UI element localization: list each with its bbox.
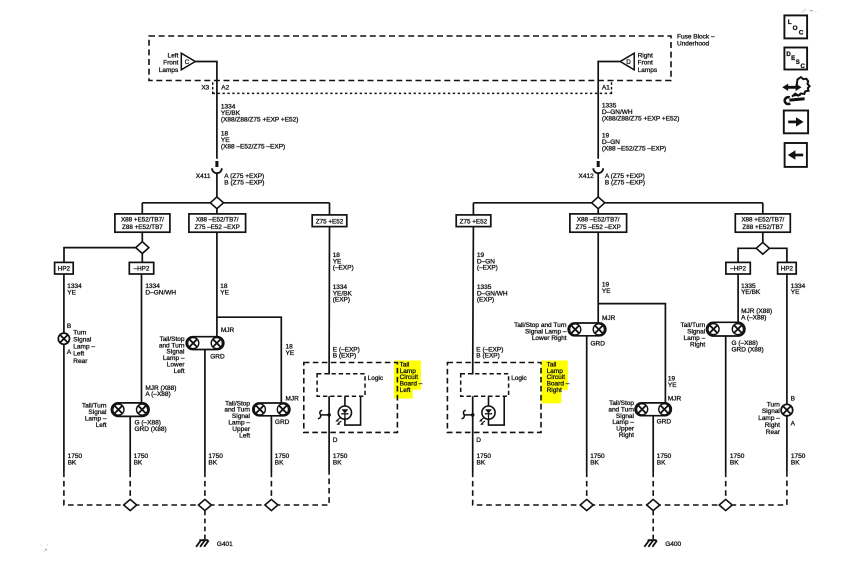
- splice diamond below X412: [592, 197, 605, 209]
- X412 pins A/B: [605, 173, 645, 186]
- pin A1: [602, 85, 610, 92]
- svg-text:D: D: [626, 59, 631, 66]
- svg-text:HP2: HP2: [781, 265, 794, 272]
- svg-text:BK: BK: [275, 460, 284, 467]
- svg-text:Signal: Signal: [73, 337, 92, 344]
- svg-text:B (Z75 –EXP): B (Z75 –EXP): [224, 179, 264, 186]
- svg-text:(EXP): (EXP): [477, 297, 494, 304]
- connector X412: [593, 161, 603, 173]
- tail/turn signal lamp left label: [82, 403, 107, 429]
- svg-text:GRD: GRD: [210, 354, 225, 361]
- wire: right distribution bus: [473, 203, 762, 215]
- wire label 19 YE (col F): [602, 281, 611, 294]
- wire label 19 YE (branch right): [668, 376, 677, 389]
- svg-text:Z75 +E52: Z75 +E52: [460, 218, 488, 225]
- svg-text:(–EXP): (–EXP): [333, 265, 354, 272]
- pin GRD (upper right): [657, 418, 672, 425]
- label X3: [201, 85, 209, 92]
- net box -HP2 (right): [726, 262, 750, 274]
- LED light arrows (left): [337, 418, 341, 421]
- svg-text:A2: A2: [221, 85, 229, 92]
- pins G(-X88)/GRD(X88) right: [732, 340, 764, 353]
- svg-text:MJR: MJR: [221, 327, 235, 334]
- pins E(-EXP)/B(EXP) right board: [476, 346, 503, 359]
- svg-text:Left: Left: [96, 422, 107, 429]
- wire: left distribution bus: [142, 203, 329, 215]
- net box HP2 (right): [778, 262, 797, 274]
- svg-text:Left: Left: [167, 53, 178, 60]
- left front lamps connector C: [181, 53, 195, 70]
- svg-text:(EXP): (EXP): [333, 297, 350, 304]
- svg-text:X411: X411: [196, 173, 211, 180]
- pin D (right board): [476, 437, 481, 444]
- wire label 1750 BK (col G): [730, 453, 745, 466]
- connector X411: [212, 161, 222, 173]
- wire label 1750 BK (col E): [477, 453, 492, 466]
- tail/stop lower right label: [514, 322, 567, 342]
- wire box to tail/stop lamp lower left: [216, 232, 218, 337]
- svg-text:(X88/Z88/Z75 +EXP +E52): (X88/Z88/Z75 +EXP +E52): [602, 116, 680, 123]
- wire label 18 YE (col C): [220, 283, 229, 296]
- LED light arrows (right): [480, 418, 484, 421]
- label X411: [196, 173, 211, 180]
- wire label 1750 BK (col D): [333, 453, 348, 466]
- wire D to ground bus (left board): [328, 436, 330, 472]
- svg-text:A (–X88): A (–X88): [145, 391, 170, 398]
- turn signal lamp - right rear: [781, 404, 793, 416]
- svg-text:BK: BK: [590, 460, 599, 467]
- wire lamp left rear to ground bus: [63, 344, 65, 471]
- LED return wire (right): [489, 396, 505, 425]
- svg-text:YE: YE: [668, 382, 677, 389]
- net box X88 -E52/TB7 Z75 -E52 -EXP (left): [189, 214, 246, 232]
- wire -HP2 to tail/turn signal lamp left: [141, 274, 143, 403]
- svg-text:Left: Left: [174, 368, 185, 375]
- pins MJR(X88)/A(-X88) right: [741, 308, 772, 321]
- svg-text:Front: Front: [163, 60, 178, 67]
- svg-text:X412: X412: [579, 173, 595, 180]
- right front lamps connector D: [620, 53, 634, 70]
- wire label 1750 BK (col F): [590, 453, 605, 466]
- svg-text:L: L: [788, 19, 792, 26]
- wire: box to HP2 splice (right): [738, 232, 787, 262]
- wire -HP2 to tail/turn signal lamp right: [737, 274, 739, 322]
- svg-text:–HP2: –HP2: [730, 265, 746, 272]
- svg-text:GRD (X88): GRD (X88): [135, 426, 167, 433]
- wire label 1334 YE (col H): [791, 283, 806, 296]
- tail/stop and turn signal lamp - upper left: [253, 403, 290, 416]
- left ground bus dashed: [64, 472, 329, 506]
- net box Z75 +E52 (right): [456, 215, 491, 227]
- wire: left front lamps C to X411: [195, 62, 217, 159]
- pin D (left board): [333, 437, 338, 444]
- fuse block label: [677, 34, 715, 48]
- wire box to tail/stop lamp lower right: [597, 232, 599, 323]
- fuse block - underhood dashed box: [149, 36, 671, 81]
- svg-text:YE: YE: [791, 289, 800, 296]
- svg-text:Z88 +E52/TB7: Z88 +E52/TB7: [742, 224, 783, 231]
- tail/stop upper left label: [224, 400, 250, 439]
- tail/stop and turn signal lamp - lower left: [186, 337, 224, 350]
- svg-text:BK: BK: [68, 460, 77, 467]
- svg-text:E: E: [791, 55, 795, 62]
- net box X88 +E52/TB7 Z88 +E52/TB7 (right): [735, 214, 790, 232]
- svg-text:Lamp –: Lamp –: [73, 344, 95, 351]
- tail lamp circuit board left callout: [400, 361, 423, 394]
- svg-text:X88 –E52/TB7/: X88 –E52/TB7/: [196, 217, 239, 224]
- pin A2: [221, 85, 229, 92]
- wire HP2 to turn signal lamp right rear: [786, 274, 788, 404]
- ground symbol G400: [644, 540, 681, 548]
- svg-text:Z88 +E52/TB7: Z88 +E52/TB7: [122, 224, 163, 231]
- svg-text:Lower Right: Lower Right: [532, 335, 567, 342]
- left front lamps label: [159, 53, 179, 74]
- svg-text:D: D: [476, 437, 481, 444]
- wire label 1334 D-GN/WH (col B): [145, 283, 176, 296]
- svg-text:BK: BK: [208, 460, 217, 467]
- wire lower right lamp to ground bus: [586, 336, 588, 472]
- wire labels 1334 YE/BK (EXP): [333, 284, 353, 304]
- pin A (left rear): [67, 349, 72, 356]
- pin B (left rear): [67, 323, 71, 330]
- LED (left): [335, 396, 351, 425]
- svg-text:Underhood: Underhood: [677, 41, 710, 48]
- svg-text:Fuse Block –: Fuse Block –: [677, 34, 715, 41]
- wire label 1335 YE/BK (col G): [741, 283, 761, 296]
- svg-text:Z75 +E52: Z75 +E52: [316, 218, 344, 225]
- pin MJR (lower right): [602, 315, 616, 322]
- wire D to ground bus (right board): [472, 436, 474, 472]
- branch wire to upper left lamp: [217, 317, 281, 403]
- connector X3 boundary ticks and dotted line: [213, 82, 612, 95]
- svg-text:Left: Left: [239, 432, 250, 439]
- LED (right): [479, 396, 495, 425]
- pin A (right rear): [791, 421, 796, 428]
- svg-text:BK: BK: [730, 460, 739, 467]
- svg-text:S: S: [796, 59, 800, 66]
- yellow highlight right: [541, 361, 568, 404]
- svg-text:X88 –E52/TB7/: X88 –E52/TB7/: [577, 217, 620, 224]
- pins G(-X88)/GRD(X88): [135, 420, 167, 433]
- svg-text:MJR: MJR: [602, 315, 616, 322]
- wire upper right lamp to ground bus: [652, 416, 654, 472]
- svg-text:BK: BK: [791, 460, 800, 467]
- label X412: [579, 173, 595, 180]
- tail/stop upper right label: [608, 400, 634, 439]
- svg-text:HP2: HP2: [58, 265, 71, 272]
- branch wire to upper right lamp: [598, 304, 665, 403]
- tail/turn signal lamp right label: [681, 322, 706, 348]
- wire label 1750 BK (col H): [791, 453, 806, 466]
- svg-text:D–GN/WH: D–GN/WH: [145, 289, 176, 296]
- ground lead G400: [652, 511, 654, 540]
- faint scan artifact top right: [801, 9, 816, 13]
- svg-text:G401: G401: [217, 541, 233, 548]
- svg-text:Front: Front: [638, 60, 653, 67]
- svg-text:Right: Right: [619, 432, 634, 439]
- ground lead G401: [204, 511, 206, 540]
- turn signal lamp left rear label: [73, 329, 95, 364]
- svg-text:A (–X88): A (–X88): [741, 315, 766, 322]
- svg-text:YE: YE: [67, 289, 76, 296]
- ground symbol G401: [196, 540, 233, 548]
- svg-text:GRD: GRD: [275, 419, 290, 426]
- wire tail/turn right to ground bus: [725, 336, 727, 472]
- svg-text:(X88 –E52/Z75 –EXP): (X88 –E52/Z75 –EXP): [602, 145, 666, 152]
- pin B (right rear): [791, 395, 795, 402]
- pin MJR (upper right): [668, 396, 682, 403]
- wire: box to HP2 splice (left): [64, 232, 142, 262]
- svg-text:YE/BK: YE/BK: [741, 289, 761, 296]
- wire labels 19 D-GN (-EXP): [477, 252, 498, 272]
- yellow highlight left: [394, 361, 421, 399]
- pin GRD (lower left): [210, 354, 225, 361]
- icon DESC button: [784, 48, 807, 71]
- svg-text:X3: X3: [201, 85, 209, 92]
- tail/stop lower left label: [159, 336, 185, 375]
- svg-text:A: A: [67, 349, 72, 356]
- svg-text:C: C: [185, 59, 190, 66]
- pin GRD (lower right): [591, 340, 606, 347]
- wire label 1750 BK (col C): [208, 453, 223, 466]
- svg-text:YE: YE: [602, 288, 611, 295]
- svg-text:GRD (X88): GRD (X88): [732, 347, 764, 354]
- splice diamonds left bus: [124, 499, 278, 510]
- svg-text:Logic: Logic: [511, 375, 527, 382]
- net box X88 -E52/TB7 Z75 -E52 -EXP (right): [570, 214, 627, 232]
- tail/turn signal lamp - right: [707, 322, 745, 336]
- svg-text:YE: YE: [286, 350, 295, 357]
- wire label 1334 YE/BK: [221, 104, 299, 124]
- svg-text:BK: BK: [134, 460, 143, 467]
- svg-text:(X88/Z88/Z75 +EXP +E52): (X88/Z88/Z75 +EXP +E52): [221, 116, 299, 123]
- svg-text:X88 +E52/TB7/: X88 +E52/TB7/: [121, 217, 164, 224]
- pin MJR (lower left): [221, 327, 235, 334]
- svg-text:GRD: GRD: [657, 418, 672, 425]
- svg-text:D: D: [333, 437, 338, 444]
- svg-text:Left: Left: [400, 387, 411, 394]
- splice diamond below X411: [210, 197, 223, 209]
- wire label 1335 D-GN/WH: [602, 103, 680, 123]
- net box -HP2 (left): [129, 262, 153, 274]
- wire Z75+E52 to circuit board left: [328, 227, 330, 375]
- svg-text:Z75 –E52 –EXP: Z75 –E52 –EXP: [576, 224, 621, 231]
- svg-text:BK: BK: [657, 460, 666, 467]
- svg-text:O: O: [793, 25, 798, 32]
- svg-text:YE: YE: [220, 289, 229, 296]
- wire label 1750 BK (branch right): [657, 453, 672, 466]
- wire label 1334 YE (col A): [67, 283, 82, 296]
- svg-text:Rear: Rear: [766, 429, 781, 436]
- icon next arrow button: [784, 111, 808, 134]
- wire lamp right rear to ground bus: [786, 416, 788, 472]
- svg-text:Lamps: Lamps: [638, 67, 658, 74]
- svg-text:Right: Right: [547, 387, 562, 394]
- svg-text:Left: Left: [73, 351, 84, 358]
- svg-text:X88 +E52/TB7/: X88 +E52/TB7/: [741, 217, 784, 224]
- svg-text:BK: BK: [477, 460, 486, 467]
- svg-text:Logic: Logic: [368, 375, 384, 382]
- logic box (left): [317, 374, 384, 396]
- turn signal lamp right rear label: [758, 401, 781, 436]
- svg-text:BK: BK: [333, 460, 342, 467]
- wire upper left lamp to ground bus: [270, 416, 272, 472]
- net box HP2 (left): [55, 262, 74, 274]
- wire label 18 YE (branch): [286, 344, 295, 357]
- svg-text:GRD: GRD: [591, 340, 606, 347]
- wire HP2 to turn signal lamp left rear: [63, 274, 65, 333]
- pin GRD (upper left): [275, 419, 290, 426]
- svg-text:Right: Right: [638, 53, 653, 60]
- tail lamp circuit board right callout: [547, 361, 570, 394]
- svg-text:C: C: [799, 29, 804, 36]
- turn signal lamp - left rear: [58, 333, 69, 344]
- splice diamond HP2 (left): [136, 242, 149, 254]
- tail/turn signal lamp - left: [111, 403, 149, 417]
- svg-text:MJR: MJR: [286, 396, 300, 403]
- wire lower left lamp to ground bus: [204, 350, 206, 472]
- wire labels 18 YE (-EXP): [333, 252, 354, 272]
- logic box (right): [461, 374, 528, 396]
- tail/stop and turn signal lamp - lower right: [568, 323, 606, 336]
- svg-text:–HP2: –HP2: [134, 265, 150, 272]
- faint scan artifact bottom left: [41, 544, 49, 552]
- wire: right front lamps D to X412: [598, 62, 620, 159]
- svg-text:Right: Right: [690, 341, 705, 348]
- pins MJR(X88)/A(-X88): [145, 385, 176, 398]
- svg-text:B: B: [791, 395, 795, 402]
- svg-text:B (EXP): B (EXP): [476, 353, 499, 360]
- svg-text:B (EXP): B (EXP): [333, 353, 356, 360]
- tail lamp circuit board - right: outer dashed box: [447, 363, 541, 433]
- tail lamp circuit board - left: outer dashed box: [304, 363, 398, 433]
- wire X411 to splice: [216, 173, 218, 198]
- wire tail/turn left to ground bus: [129, 416, 131, 471]
- svg-text:Rear: Rear: [73, 358, 88, 365]
- splice diamond HP2 (right): [756, 242, 769, 254]
- svg-text:(X88 –E52/Z75 –EXP): (X88 –E52/Z75 –EXP): [221, 143, 285, 150]
- board internal wire and junction (right): [462, 396, 475, 436]
- svg-text:Turn: Turn: [73, 329, 87, 336]
- wire label 1750 BK (branch): [275, 453, 290, 466]
- svg-text:A: A: [791, 421, 796, 428]
- icon schematic navigation (arrows and wrench): [782, 77, 809, 104]
- wire label 18 YE: [221, 131, 285, 151]
- svg-text:B: B: [67, 323, 71, 330]
- wire labels 1335 D-GN/WH (EXP): [477, 284, 508, 304]
- pins E(-EXP)/B(EXP) left board: [333, 346, 360, 359]
- net box X88 +E52/TB7 Z88 +E52/TB7 (left): [115, 214, 170, 232]
- LED return wire (left): [345, 396, 361, 425]
- wire label 1750 BK (col A): [68, 453, 83, 466]
- wire Z75+E52 to circuit board right: [472, 227, 475, 375]
- wire label 1750 BK (col B): [134, 453, 149, 466]
- svg-text:G400: G400: [665, 541, 681, 548]
- right front lamps label: [638, 53, 658, 74]
- wire X412 to splice: [597, 173, 599, 198]
- svg-text:C: C: [801, 63, 806, 70]
- icon LOC button: [784, 15, 807, 38]
- tail/stop and turn signal lamp - upper right: [635, 403, 671, 416]
- svg-text:Lamps: Lamps: [159, 67, 179, 74]
- pin MJR (upper left): [286, 396, 300, 403]
- icon back arrow button: [785, 143, 807, 167]
- board internal wire and junction (left): [318, 396, 331, 436]
- wire label 19 D-GN: [602, 133, 666, 153]
- svg-text:Z75 –E52 –EXP: Z75 –E52 –EXP: [195, 224, 240, 231]
- svg-text:MJR: MJR: [668, 396, 682, 403]
- right ground bus dashed: [473, 472, 787, 506]
- X411 pins A/B: [224, 173, 264, 186]
- net box Z75 +E52 (left): [312, 215, 347, 227]
- svg-text:A1: A1: [602, 85, 610, 92]
- svg-text:(–EXP): (–EXP): [477, 265, 498, 272]
- svg-text:B (Z75 –EXP): B (Z75 –EXP): [605, 179, 645, 186]
- splice diamonds right bus: [580, 499, 732, 510]
